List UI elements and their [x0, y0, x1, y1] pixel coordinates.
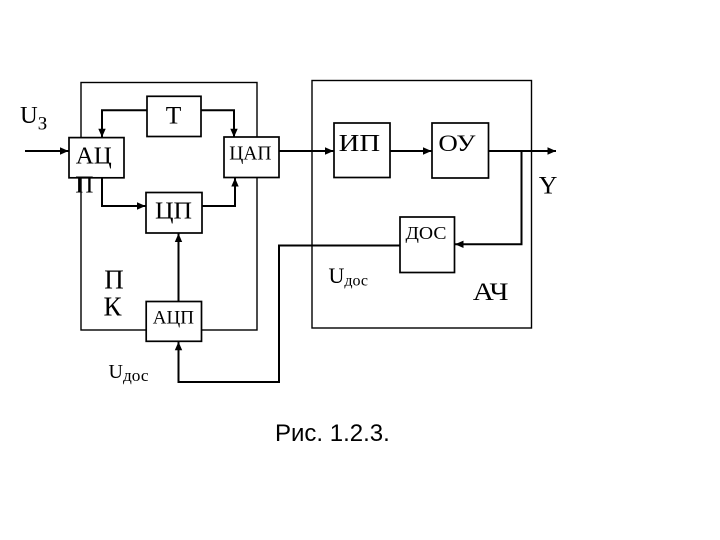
svg-text:ОУ: ОУ — [438, 131, 476, 156]
svg-text:ЦП: ЦП — [155, 198, 192, 225]
svg-text:АЦ: АЦ — [76, 143, 112, 169]
svg-text:К: К — [104, 292, 123, 322]
svg-text:Т: Т — [166, 101, 182, 130]
svg-text:ДОС: ДОС — [406, 223, 447, 243]
svg-text:Рис. 1.2.3.: Рис. 1.2.3. — [275, 420, 390, 447]
svg-text:Uдос: Uдос — [109, 361, 149, 385]
svg-text:АЦП: АЦП — [153, 307, 194, 328]
svg-text:ИП: ИП — [339, 131, 381, 157]
svg-text:ЦАП: ЦАП — [229, 144, 271, 165]
svg-text:Y: Y — [539, 170, 558, 199]
svg-text:Uдос: Uдос — [329, 263, 369, 290]
svg-text:UЗ: UЗ — [20, 102, 47, 135]
svg-text:П: П — [104, 265, 124, 295]
svg-text:П: П — [75, 173, 93, 199]
svg-text:АЧ: АЧ — [473, 277, 509, 306]
